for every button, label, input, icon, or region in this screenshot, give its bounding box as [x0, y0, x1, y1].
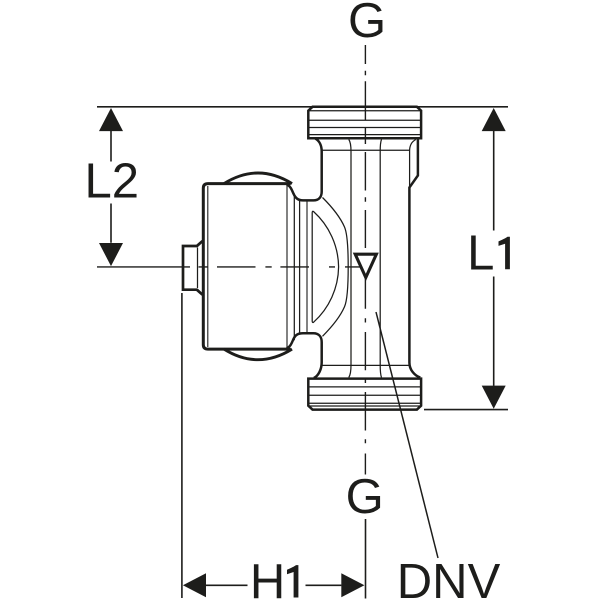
spigot outline — [183, 241, 203, 295]
flange ribs bottom — [308, 387, 421, 403]
body top arc — [224, 173, 292, 184]
neck line 2 — [306, 201, 308, 333]
thin detail lines — [198, 111, 422, 406]
wire left extension line (H1) — [181, 293, 183, 598]
pipe left wall with neck valley top — [287, 139, 322, 201]
dimension L2 — [99, 108, 123, 266]
pipe right shoulder curve — [410, 140, 416, 188]
body outline — [203, 184, 290, 350]
leader DNV — [376, 312, 438, 558]
svg-text:DNV: DNV — [397, 555, 501, 600]
svg-text:G: G — [346, 470, 384, 524]
svg-text:G: G — [348, 0, 386, 48]
flange ribs top — [308, 120, 421, 134]
pipe inner line right — [380, 140, 381, 378]
wire top extension line — [97, 106, 508, 108]
flow triangle — [355, 254, 376, 277]
spigot face line — [197, 248, 199, 289]
spigot chamfers — [197, 241, 202, 295]
svg-text:L: L — [467, 227, 494, 281]
label L1 digit 1 — [499, 237, 510, 269]
wire bottom right extension line — [424, 409, 508, 411]
neck line 1 — [299, 201, 301, 333]
body end-face line 2 — [293, 194, 295, 341]
label H1 digit 1 — [287, 565, 298, 597]
flange chamfer line bottom — [308, 405, 421, 407]
shoulder line top — [323, 149, 410, 151]
flange bottom — [308, 379, 421, 410]
flange chamfer line top — [308, 110, 421, 112]
body end-face line 1 — [286, 186, 288, 348]
svg-text:H: H — [250, 555, 285, 600]
body bottom arc — [224, 349, 292, 360]
shoulder line bottom — [323, 364, 409, 366]
thick outlines — [183, 107, 421, 410]
saddle outer arc — [323, 198, 349, 337]
centerline vertical G axis — [364, 45, 366, 475]
dimension H1 — [183, 573, 365, 597]
pipe right wall hex flat — [409, 139, 420, 378]
body inner-left line — [207, 186, 209, 347]
svg-text:L2: L2 — [85, 155, 140, 209]
centerline horizontal branch axis — [97, 266, 366, 268]
pipe inner line left — [349, 140, 351, 378]
wire centerline extension below G — [365, 519, 367, 599]
flange top — [308, 107, 421, 138]
bore lens — [312, 211, 338, 322]
pipe left wall with neck valley bottom — [287, 333, 322, 378]
dimension L1 — [482, 108, 506, 409]
